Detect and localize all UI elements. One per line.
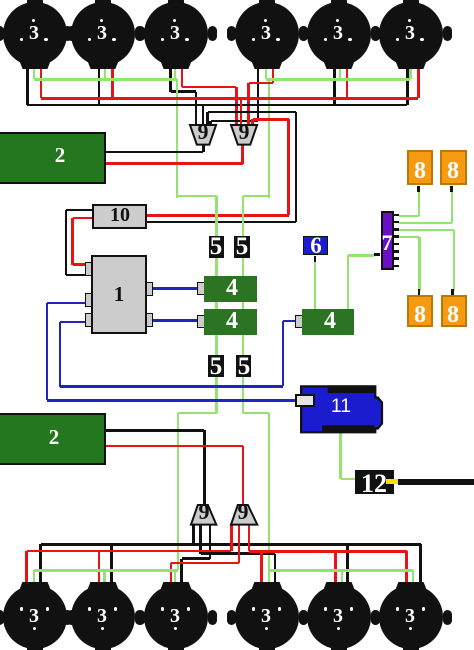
wire: motor1 red drop (40, 62, 42, 98)
LED D1 (label 8) (0, 0, 1, 1)
wire: blue ctrl tab3 left (60, 321, 88, 323)
wire: blue esc1 link (152, 287, 198, 289)
wire: battery2 red lead (104, 162, 243, 164)
wire: module10 black out (146, 221, 296, 223)
wire: motor12 black drop (419, 544, 421, 585)
wire: green bus top-right (266, 78, 410, 80)
harness 9d label (203, 501, 283, 523)
wire: led8d drop (453, 230, 455, 291)
wire: driver7 left pin run (348, 254, 374, 256)
relay K1 (label 5) (209, 236, 225, 258)
wire: black bus drop to harness (202, 105, 204, 127)
driver U7 (label 7) (0, 0, 1, 1)
motor M7 (label 3) (0, 0, 1, 1)
wire: driver7 pin1 run (399, 215, 419, 217)
wire: motor1 black drop (26, 62, 28, 105)
relay K2 (label 5) (234, 236, 250, 258)
ESC A2 (label 4) (0, 0, 1, 1)
wire: right green mid trunk (242, 196, 244, 413)
wire: harness9a output (202, 143, 204, 152)
battery B2 label (14, 427, 94, 448)
relay K4 label (204, 354, 284, 379)
wire: module10 black to ctrl1 (66, 274, 88, 276)
wire: blue left inner drop (59, 322, 61, 387)
module U10 label (80, 205, 160, 225)
harness 9a label (163, 121, 243, 143)
harness 9c label (164, 501, 244, 523)
wire: harness9d out1 (230, 524, 232, 551)
relay K2 label (202, 234, 282, 259)
wire: board11 to sensor12 (339, 433, 341, 478)
LED D2 (label 8) (0, 0, 1, 1)
wire: red bus bottom-left (27, 550, 232, 552)
wire: battery2b black lead (104, 429, 204, 431)
wire: driver7 pin3 run (399, 229, 454, 231)
wire: harness9c run to motor10 (201, 552, 275, 554)
harness 9a (black merger) (187, 122, 222, 151)
battery B1 (label 2) (0, 132, 106, 184)
wire: motor9 black drop (180, 559, 182, 586)
relay K3 (label 5) (208, 355, 224, 377)
wire: motor12 red drop (405, 551, 407, 585)
relay K4 (label 5) (236, 355, 252, 377)
sensor S1 (label 6) (303, 236, 328, 254)
wire: harness9d out3 (248, 524, 250, 551)
wire: motor10 red drop (260, 551, 262, 585)
wire: motor3 black run (171, 90, 196, 92)
wire: right green lower jog (243, 412, 269, 414)
battery B1 label (20, 145, 100, 166)
motor M4 (label 3) (0, 0, 1, 1)
wire: motor11 green drop (341, 570, 343, 585)
wire: motor7 green drop (33, 570, 35, 585)
wire: motor2 red drop (111, 62, 113, 98)
wire: left green mid trunk (215, 196, 217, 413)
wire: battery2b red lead (104, 445, 243, 447)
wire: blue run to board11 (47, 399, 296, 401)
wire: harness9d run to motor9 (171, 562, 239, 564)
wire: harness9c out1 (192, 524, 194, 544)
wire: motor6 black drop (406, 62, 408, 105)
wire: module10 red left drop (71, 218, 73, 265)
wire: module10 red out (146, 214, 289, 216)
wire: motor4 black run (211, 120, 259, 122)
wire: battery2 black lead (104, 151, 203, 153)
wire: motor3 black drop (169, 62, 171, 92)
wire: module10 red riser (287, 119, 289, 215)
sensor S1 pin stub (314, 256, 317, 262)
motor M1 (label 3) (0, 0, 1, 1)
wire: motor9 red drop (170, 563, 172, 585)
motor M12 (label 3) (0, 0, 1, 1)
wire: driver7 to esc3 drop (347, 255, 349, 309)
wire: battery2b red drop (242, 446, 244, 505)
motor M6 (label 3) (0, 0, 1, 1)
wire: black bus top (27, 104, 407, 106)
sensor S12 (label 12) (0, 0, 1, 1)
controller U1 (label 1) (0, 0, 1, 1)
wire: left green lower jog (178, 412, 217, 414)
wire: module10 black left drop (65, 210, 67, 275)
wire: motor4 red into harness (247, 83, 249, 127)
wire: motor11 black drop (346, 544, 348, 585)
wire: motor5 green drop (339, 62, 341, 79)
wire: harness9b output (241, 143, 243, 164)
wire: module10 black harness drop (206, 112, 208, 127)
wire: motor8 red drop (98, 551, 100, 585)
wire: driver7 pin2 run (399, 222, 452, 224)
wire: motor3 green drop (174, 62, 176, 79)
wire: black bus bottom (41, 543, 421, 545)
wire: motor4 red run (249, 82, 273, 84)
wire: motor3 red into harness (235, 87, 237, 127)
wire: motor12 green drop (412, 570, 414, 585)
wire: motor11 red drop (334, 551, 336, 585)
wire: module10 black left (66, 209, 93, 211)
wire: blue ctrl tab2 left (47, 302, 88, 304)
wire: module10 black to harness (208, 111, 297, 113)
harness 9b (red merger) (228, 122, 263, 151)
wire: motor10 black drop (274, 554, 276, 586)
wire: harness9c out3 (209, 524, 211, 559)
wire: green bus top-left (34, 78, 177, 80)
wire: green bus bottom-left (34, 569, 178, 571)
wire: blue esc2 link (152, 319, 198, 321)
motor M5 (label 3) (0, 0, 1, 1)
wire: harness9c run to motor9 (182, 557, 211, 559)
wire: motor2 black drop (98, 62, 100, 105)
wire: motor3 red run (182, 86, 237, 88)
wire: left green lower trunk (177, 413, 179, 571)
wire: harness9c out2 (199, 524, 201, 554)
wire: motor6 red drop (417, 62, 419, 98)
wire: motor5 black drop (333, 62, 335, 105)
wire: blue left outer drop (46, 303, 48, 401)
wire: motor4 green drop (265, 62, 267, 79)
wire: led8b riser (451, 191, 453, 223)
wire: blue lower run (60, 385, 283, 387)
wire: right green jog (243, 195, 269, 197)
motor M10 (label 3) (0, 0, 1, 1)
wire: module10 black riser (295, 112, 297, 223)
wire: module10 red left (73, 217, 93, 219)
wire: led8a riser (418, 191, 420, 216)
motor M11 (label 3) (0, 0, 1, 1)
board U11 (label 11) (0, 0, 1, 1)
module U10 (label 10) (92, 204, 147, 229)
wire: motor1 green drop (33, 62, 35, 79)
harness 9d (red splitter) (228, 502, 263, 531)
wire: motor4 black into harness (209, 121, 211, 127)
wire: blue riser to esc3 (282, 321, 284, 386)
motor M9 (label 3) (0, 0, 1, 1)
wire: motor4 black drop (257, 62, 259, 121)
wire: left green jog (177, 195, 216, 197)
wire: motor7 red drop (25, 551, 27, 585)
wire: motor8 black drop (110, 544, 112, 585)
wire: green bus bottom-right (269, 569, 413, 571)
wire: sensor6 to esc3 (314, 257, 316, 310)
wire: module10 red to ctrl1 (73, 263, 88, 265)
wire: motor7 black drop (39, 544, 41, 585)
sensor S1 label (276, 234, 356, 257)
wire: module10 red to harness (253, 118, 289, 120)
wire: battery2b black drop (203, 430, 205, 505)
wire: right green lower trunk (268, 413, 270, 571)
ESC A1 (label 4) (0, 0, 1, 1)
wire: motor9 green drop (174, 570, 176, 585)
wire: motor10 green drop (268, 570, 270, 585)
motor M8 (label 3) (0, 0, 1, 1)
wire: motor6 green drop (409, 62, 411, 79)
battery B2 (label 2) (0, 413, 106, 466)
motor M2 (label 3) (0, 0, 1, 1)
motor M3 (label 3) (0, 0, 1, 1)
wire: red bus drop to harness (240, 98, 242, 127)
harness 9c (black splitter) (188, 502, 222, 531)
wire: driver7 pin4 run (399, 236, 420, 238)
wire: motor4 red drop (272, 62, 274, 83)
wire: red bus top (41, 97, 418, 99)
wire: module10 red harness drop (251, 119, 253, 127)
wire: motor3 red drop (181, 62, 183, 87)
relay K3 label (176, 354, 256, 379)
wire: red bus bottom-right (249, 550, 407, 552)
wire: harness9d out2 (238, 524, 240, 563)
wire: motor2 green drop (104, 62, 106, 79)
wire: blue esc3 link (283, 320, 296, 322)
wire: led8c drop (418, 237, 420, 291)
wire: right green trunk (268, 79, 270, 198)
wire: motor8 green drop (103, 570, 105, 585)
wire: motor3 black into harness (195, 92, 197, 127)
wire: motor5 red drop (346, 62, 348, 98)
wire: left green trunk (176, 79, 178, 198)
relay K1 label (176, 234, 256, 259)
LED D3 (label 8) (0, 0, 1, 1)
ESC A3 (label 4) (0, 0, 1, 1)
harness 9b label (204, 121, 284, 143)
wire: sensor12 green lead (341, 478, 356, 480)
LED D4 (label 8) (0, 0, 1, 1)
